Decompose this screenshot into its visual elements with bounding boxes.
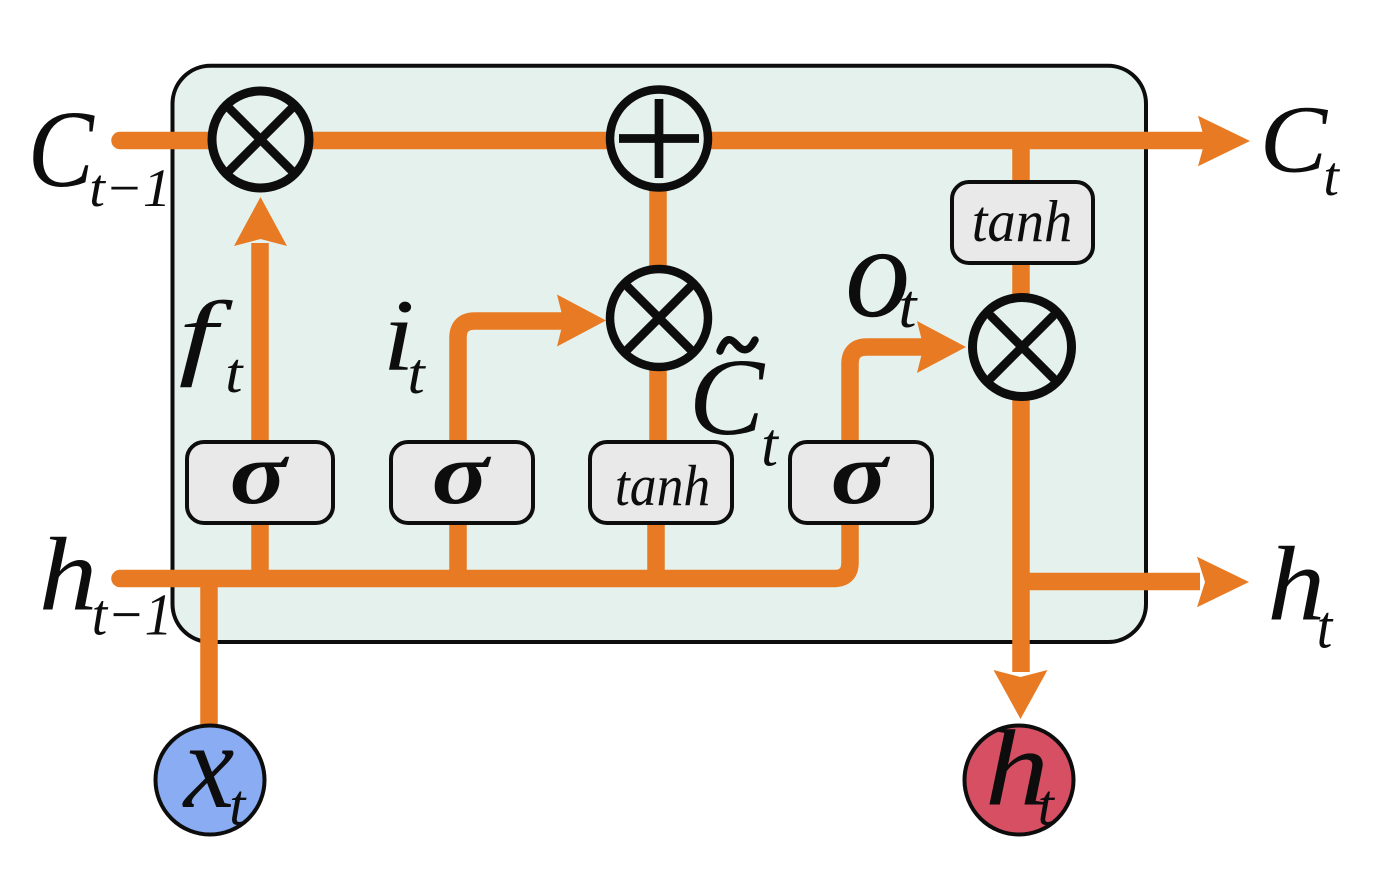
- svg-text:t: t: [1038, 773, 1056, 838]
- svg-text:t: t: [1323, 146, 1340, 208]
- svg-text:C: C: [28, 88, 95, 210]
- svg-text:σ: σ: [432, 425, 492, 523]
- svg-text:C: C: [689, 336, 766, 459]
- svg-text:σ: σ: [230, 425, 290, 523]
- svg-text:h: h: [39, 517, 98, 633]
- svg-text:t: t: [898, 271, 917, 341]
- svg-text:tanh: tanh: [972, 188, 1073, 255]
- svg-text:t: t: [225, 341, 244, 404]
- svg-text:t: t: [761, 412, 780, 480]
- svg-text:t−1: t−1: [89, 158, 171, 218]
- svg-text:σ: σ: [831, 425, 891, 523]
- svg-text:t: t: [408, 342, 427, 406]
- svg-text:t: t: [1317, 592, 1334, 661]
- svg-text:tanh: tanh: [615, 454, 710, 518]
- svg-text:C: C: [1260, 87, 1329, 193]
- svg-text:t−1: t−1: [92, 583, 173, 648]
- svg-text:x: x: [182, 697, 234, 834]
- svg-text:t: t: [229, 773, 247, 838]
